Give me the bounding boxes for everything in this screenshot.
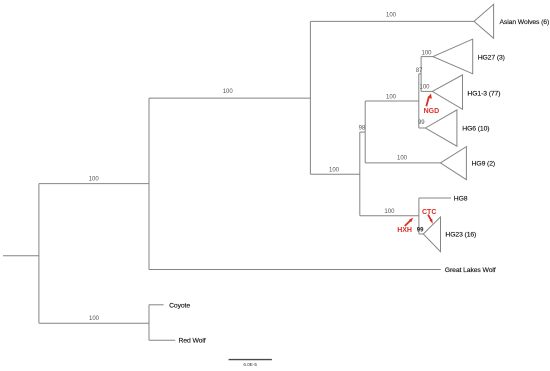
svg-text:Great Lakes Wolf: Great Lakes Wolf	[445, 267, 496, 274]
annotation CTC arrow	[428, 215, 433, 224]
svg-text:87: 87	[416, 68, 423, 74]
wire coyote clade branch	[39, 322, 149, 324]
clade triangle HG23	[423, 217, 440, 252]
annotation NGD arrow	[426, 94, 432, 107]
clade triangle HG9	[440, 147, 466, 180]
svg-text:HG23 (16): HG23 (16)	[445, 232, 476, 239]
annotation HXH arrow	[405, 218, 413, 226]
clade triangle Asian Wolves	[474, 4, 494, 38]
wire branch C to D	[365, 100, 419, 102]
wire Asian Wolves branch	[310, 20, 474, 22]
wire vertical node x149	[148, 98, 150, 269]
svg-text:100: 100	[223, 89, 234, 95]
svg-text:100: 100	[397, 156, 408, 162]
svg-text:HG6 (10): HG6 (10)	[462, 125, 489, 132]
svg-text:Coyote: Coyote	[169, 302, 190, 309]
wire Red Wolf branch	[149, 339, 175, 341]
wire Coyote branch	[149, 304, 164, 306]
clade triangle HG6	[425, 110, 457, 146]
wire jog D to E	[419, 73, 421, 75]
svg-text:HG9 (2): HG9 (2)	[472, 160, 495, 167]
wire Great Lakes Wolf branch	[149, 269, 441, 271]
wire jog B to C	[360, 131, 365, 133]
svg-text:Asian Wolves (6): Asian Wolves (6)	[500, 19, 550, 26]
wire node D vertical	[418, 74, 420, 128]
wire node B vertical	[359, 132, 361, 216]
svg-text:HG1-3 (77): HG1-3 (77)	[467, 90, 500, 97]
svg-text:99: 99	[417, 227, 424, 233]
svg-text:100: 100	[421, 51, 432, 57]
wire branch to wolf+dog clade	[39, 183, 149, 185]
svg-text:99: 99	[418, 120, 425, 126]
svg-text:100: 100	[89, 316, 100, 322]
wire HG27 branch	[421, 56, 433, 58]
svg-text:100: 100	[329, 168, 340, 174]
svg-text:100: 100	[384, 209, 395, 215]
wire branch A to B	[310, 173, 359, 175]
wire HG9 branch	[365, 162, 440, 164]
svg-text:6.0E-5: 6.0E-5	[243, 362, 257, 367]
svg-text:HG27 (3): HG27 (3)	[478, 54, 505, 61]
clade triangle HG27	[433, 39, 473, 74]
wire node E vertical	[420, 57, 422, 92]
wire root stub	[3, 255, 39, 257]
svg-text:100: 100	[419, 84, 430, 90]
svg-text:HG8: HG8	[454, 196, 468, 203]
wire HG8 branch	[419, 197, 451, 199]
wire node C vertical	[364, 101, 366, 163]
svg-text:100: 100	[89, 177, 100, 183]
svg-text:NGD: NGD	[424, 108, 440, 115]
wire node A vertical	[309, 21, 311, 174]
svg-text:100: 100	[386, 12, 397, 18]
wire vertical node x148	[148, 305, 150, 341]
wire branch B to F	[360, 215, 419, 217]
wire HG1-3 branch	[421, 90, 432, 92]
svg-text:98: 98	[359, 125, 366, 131]
scale bar	[229, 359, 272, 361]
wire branch to node A	[149, 97, 310, 99]
wire HG6 branch	[419, 127, 426, 129]
wire node F vertical	[418, 198, 420, 234]
wire root vertical	[38, 184, 40, 324]
clade triangle HG1-3	[432, 75, 462, 109]
svg-text:100: 100	[386, 94, 397, 100]
svg-text:Red Wolf: Red Wolf	[179, 337, 206, 344]
svg-text:HXH: HXH	[397, 227, 412, 234]
wire HG23 stub	[419, 233, 423, 235]
